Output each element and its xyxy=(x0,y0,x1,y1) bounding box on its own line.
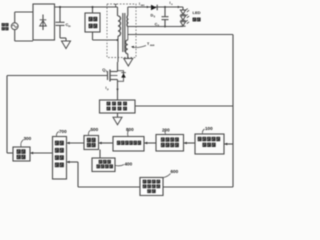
svg-text:800: 800 xyxy=(126,127,134,132)
svg-text:in: in xyxy=(68,24,71,28)
svg-text:700: 700 xyxy=(59,129,67,134)
svg-text:600: 600 xyxy=(171,169,179,174)
svg-text:LED: LED xyxy=(193,10,201,15)
svg-text:aux: aux xyxy=(150,44,155,47)
svg-text:400: 400 xyxy=(125,162,133,167)
svg-text:300: 300 xyxy=(24,136,32,141)
svg-text:200: 200 xyxy=(162,128,170,133)
svg-text:500: 500 xyxy=(91,127,99,132)
svg-text:sec: sec xyxy=(141,4,146,7)
svg-text:T: T xyxy=(114,3,117,8)
svg-text:100: 100 xyxy=(205,126,213,131)
